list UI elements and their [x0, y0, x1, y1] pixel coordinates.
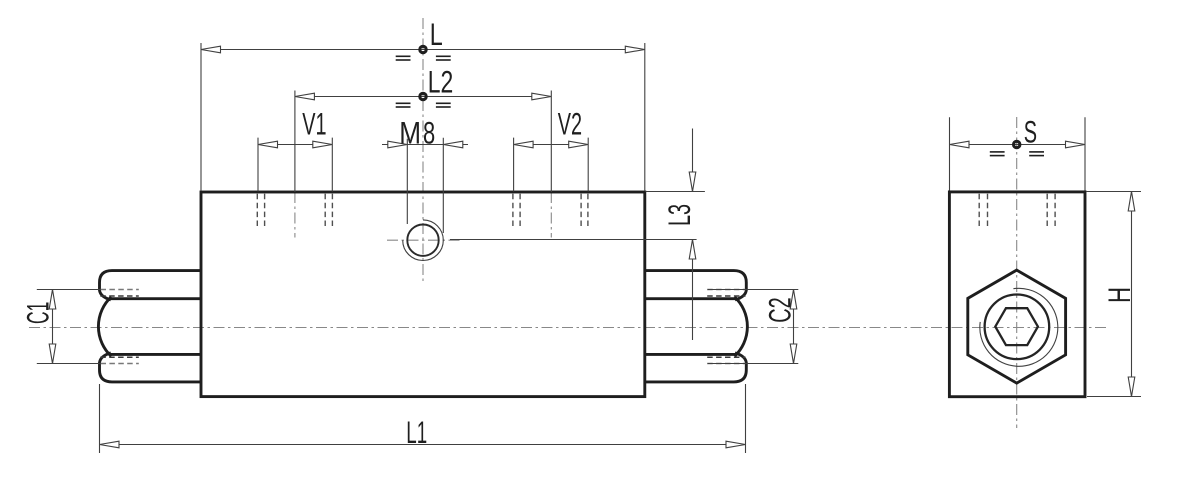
svg-text:L3: L3 [661, 204, 697, 226]
right fitting hidden thread line outer upper (gray dashed) [707, 289, 745, 291]
dimension L2 extension lines (port center lines) [295, 91, 551, 193]
dimension C2 line [793, 290, 795, 364]
dimension L2 equality marks [396, 103, 451, 108]
dimension C1 arrow down [49, 344, 56, 364]
right fitting hidden thread line inner lower (dark dashed) [707, 356, 745, 358]
dimension L3 arrow upper (pointing down) [689, 172, 696, 192]
dimension L3 line lower shaft [692, 240, 694, 341]
horizontal centerline through M8 hole [387, 239, 461, 241]
dimension L arrow right [625, 46, 645, 53]
port V1 hidden hole lines (dashed) [257, 194, 332, 229]
dimension L1 extension lines [100, 384, 746, 453]
svg-text:M: M [399, 114, 421, 150]
end view hidden port lines (dashed) [979, 194, 1055, 229]
dimension L1 arrow right [726, 441, 746, 448]
svg-text:L: L [430, 16, 443, 52]
dimension V1 line [258, 144, 332, 146]
svg-text:8: 8 [423, 114, 435, 150]
left fitting hidden thread line inner upper (dark dashed) [100, 295, 139, 297]
right fitting hidden thread line outer lower (gray dashed) [707, 363, 745, 365]
dimension L arrow left [201, 46, 221, 53]
dimension L2 line [295, 96, 551, 98]
svg-text:C1: C1 [20, 302, 56, 324]
svg-text:S: S [1024, 114, 1037, 150]
dimension C2 arrow down [790, 344, 797, 364]
svg-text:V1: V1 [302, 106, 326, 142]
dimension L center marker [420, 46, 426, 52]
svg-text:V2: V2 [558, 106, 582, 142]
left fitting hidden thread line inner lower (dark dashed) [100, 356, 139, 358]
left hex facet line lower [110, 353, 201, 356]
port V2 centerline (dash-dot below body top) [550, 192, 552, 238]
dimension C1 arrow up [49, 290, 56, 310]
dimension V2 arrow right [569, 141, 589, 148]
dimension V2 extension lines [514, 138, 589, 192]
port V1 centerline (dash-dot below body top) [294, 192, 296, 238]
svg-text:C2: C2 [762, 297, 798, 322]
dimension L extension lines [201, 43, 645, 191]
dimension L2 arrow left [295, 93, 315, 100]
left fitting hidden thread line outer upper (gray dashed) [101, 289, 139, 291]
right hex facet line lower [645, 353, 736, 356]
dimension H extension lines [1086, 192, 1141, 397]
dimension L3 lower extension line [450, 239, 697, 241]
dimension S arrow right [1066, 141, 1086, 148]
dimension V2 arrow left [514, 141, 534, 148]
dimension V1 extension lines [258, 138, 332, 192]
dimension L2 arrow right [532, 93, 552, 100]
dimension L3 upper extension line [646, 191, 705, 193]
dimension S equality marks [990, 151, 1044, 156]
dimension V2 line [514, 144, 589, 146]
dimension C1 line [52, 290, 54, 364]
svg-text:L2: L2 [428, 63, 454, 99]
dimension C1 extension lines [37, 290, 101, 364]
dimension M8 line [382, 144, 468, 146]
end view vertical centerline [1016, 117, 1018, 428]
right hex end fitting silhouette [645, 271, 748, 382]
dimension L2 center marker [420, 93, 426, 99]
hex plug outer hexagon (end view) [968, 270, 1066, 383]
M8 thread 3/4 arc [403, 220, 444, 261]
dimension M8 arrow left (outside, pointing right) [388, 141, 408, 148]
hex socket (internal hexagon) [995, 308, 1038, 345]
main horizontal centerline (axis of valve) [29, 327, 1106, 329]
hex plug chamfer thin arc [980, 288, 1058, 366]
left hex end fitting silhouette [98, 271, 201, 382]
dimension V1 arrow right [313, 141, 333, 148]
dimension L3 line upper shaft [692, 129, 694, 192]
dimension V1 arrow left [258, 141, 278, 148]
left hex facet line upper [110, 297, 201, 300]
right hex facet line upper [645, 297, 736, 300]
dimension L equality marks [396, 56, 451, 61]
dimension S center marker [1014, 141, 1020, 147]
dimension C2 arrow up [790, 290, 797, 310]
svg-text:L1: L1 [406, 414, 427, 450]
dimension L3 arrow lower (pointing up) [689, 240, 696, 260]
dimension H arrow down [1128, 377, 1135, 397]
dimension L1 line [100, 444, 746, 446]
M8 tapped hole inner circle [407, 225, 438, 256]
dimension L line [201, 49, 645, 51]
dimension H line [1131, 192, 1133, 397]
dimension S extension lines [950, 117, 1086, 190]
dimension C2 extension lines [708, 290, 799, 364]
left fitting hidden thread line outer lower (gray dashed) [101, 363, 139, 365]
dimension H arrow up [1128, 192, 1135, 212]
end view block outline [949, 192, 1085, 397]
svg-text:H: H [1101, 287, 1137, 303]
dimension S arrow left [950, 141, 970, 148]
dimension M8 extension lines [407, 138, 443, 233]
right fitting hidden thread line inner upper (dark dashed) [707, 295, 745, 297]
dimension L1 arrow left [100, 441, 120, 448]
vertical centerline of M8 port (top view axis) [422, 18, 424, 281]
dimension S line [950, 144, 1086, 146]
port V2 hidden hole lines (dashed) [513, 194, 588, 229]
dimension M8 arrow right (outside, pointing left) [443, 141, 463, 148]
hex plug face circle [985, 295, 1050, 360]
valve body outline (side view) [201, 192, 645, 397]
